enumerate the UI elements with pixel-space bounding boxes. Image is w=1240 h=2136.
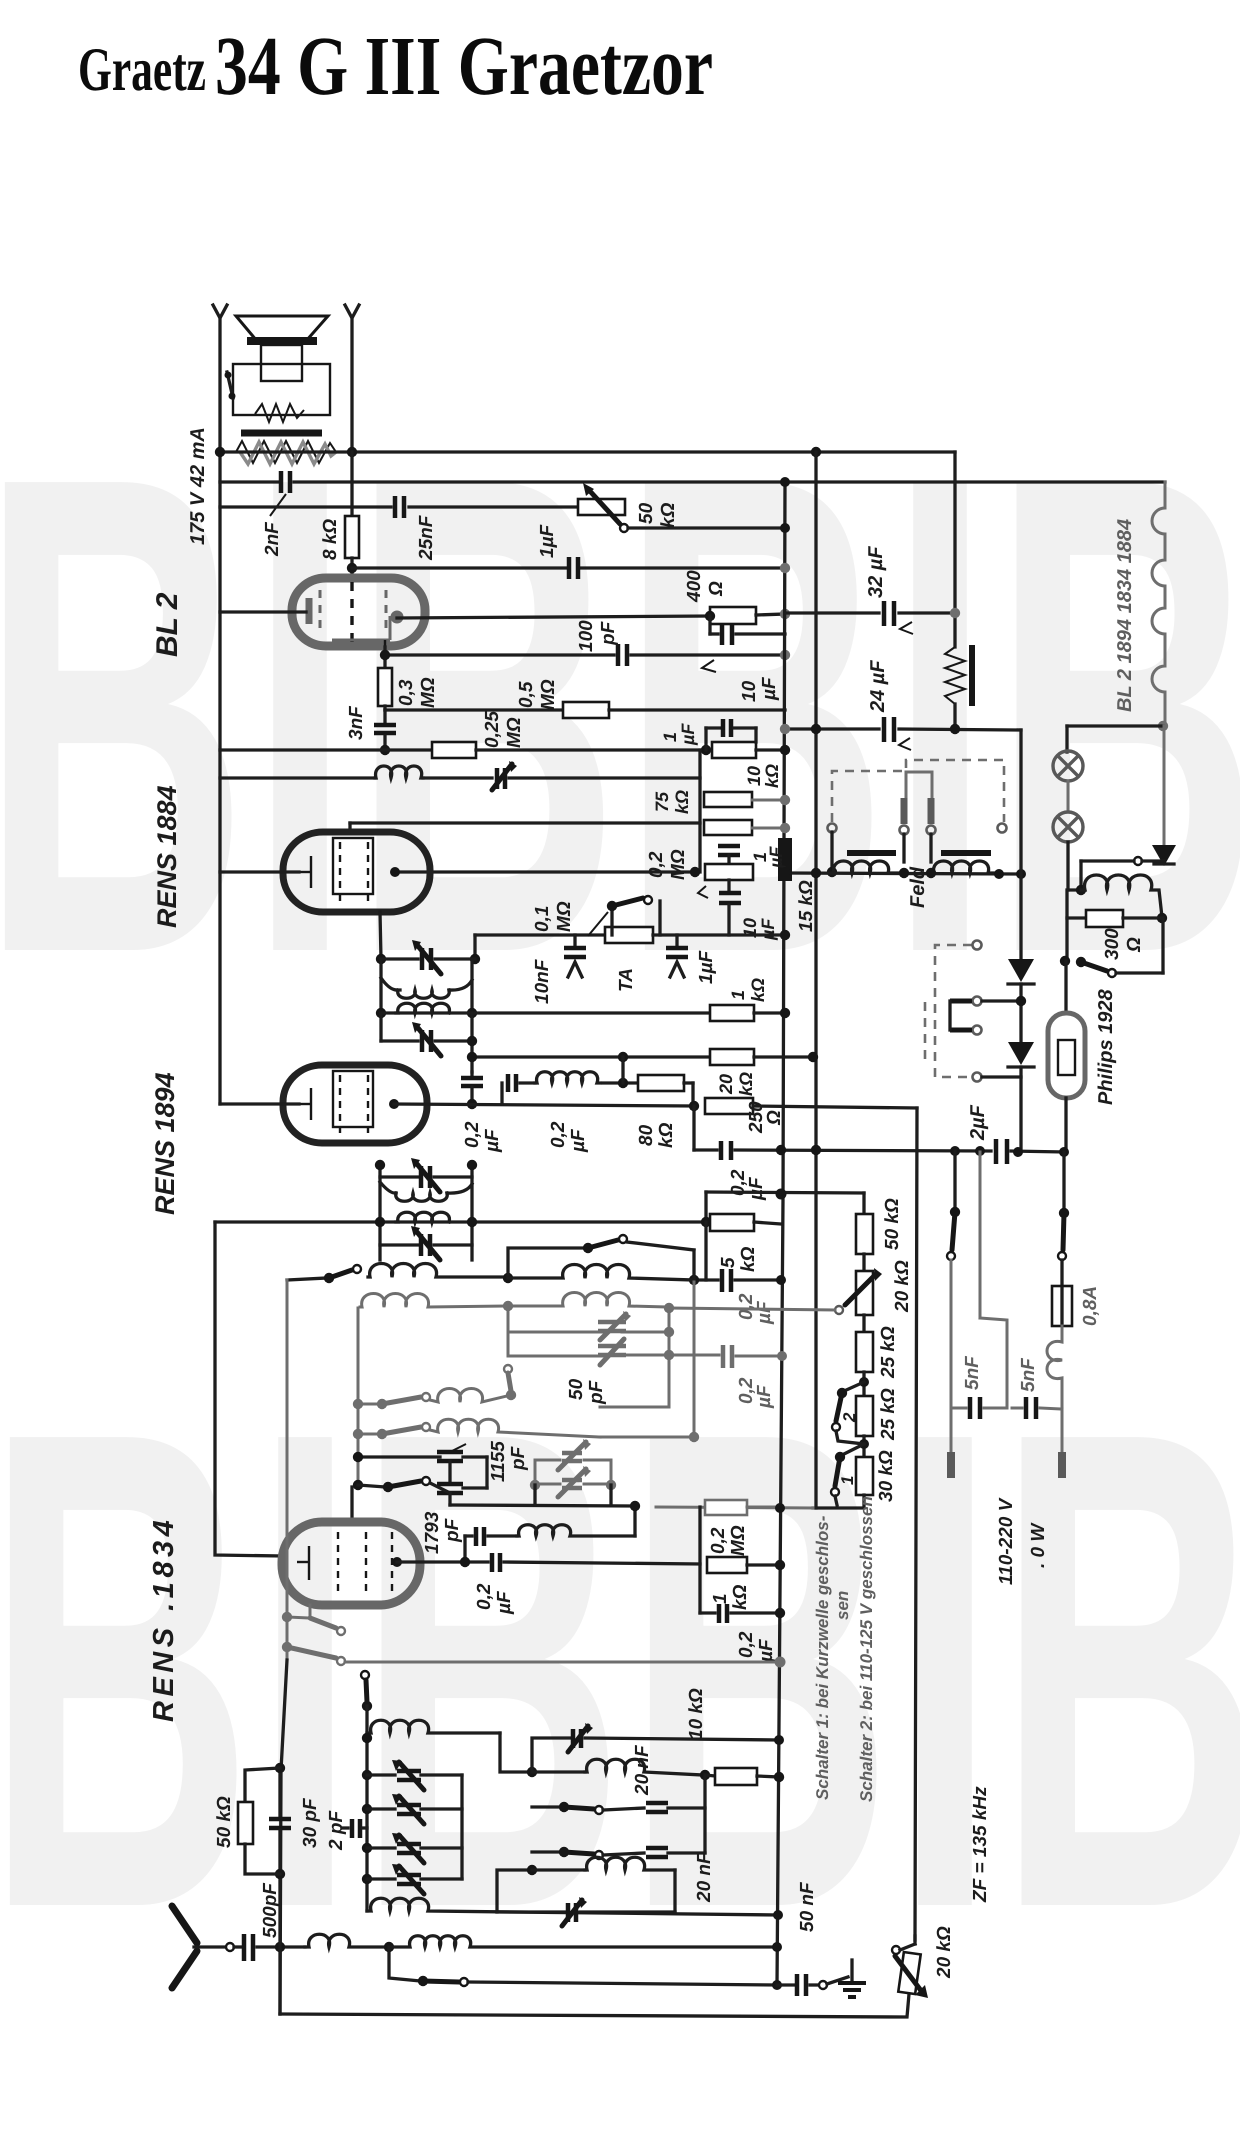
capacitor 24µF electrolytic: [882, 717, 887, 742]
gray vertical x358: [357, 1308, 360, 1485]
potentiometer 50kΩ: [578, 499, 625, 515]
capacitor 1µF to pickup: [675, 935, 678, 946]
resistor 30kΩ with switch 1: [856, 1457, 873, 1495]
svg-text:kΩ: kΩ: [730, 1584, 751, 1610]
svg-text:µF: µF: [494, 1590, 515, 1615]
wire: grid feed line y507: [220, 505, 391, 508]
mains transformer dashed frame left: [832, 760, 1004, 822]
svg-text:Philips 1928: Philips 1928: [1095, 989, 1117, 1105]
svg-text:100: 100: [576, 620, 597, 652]
tube RENS 1884: [283, 832, 430, 912]
gray switch + coil 6 (y1432): [358, 1433, 382, 1436]
svg-text:MΩ: MΩ: [728, 1525, 749, 1556]
svg-text:1: 1: [710, 1593, 731, 1604]
capacitor 50nF + earth: [773, 1910, 783, 1920]
svg-text:5nF: 5nF: [1018, 1357, 1039, 1392]
svg-text:µF: µF: [482, 1128, 503, 1153]
resistor 50kΩ (antenna): [245, 1768, 280, 1802]
wire: 1894 anode line: [394, 1104, 695, 1106]
wire: left supply vertical V1: [213, 305, 227, 318]
svg-text:10 kΩ: 10 kΩ: [686, 1688, 707, 1740]
switch (tone/feedback): [1060, 956, 1070, 966]
wire: screen feed column x=700: [698, 750, 701, 872]
Feld winding left: [832, 861, 904, 873]
gray switch at x508: [504, 1365, 512, 1373]
svg-text:kΩ: kΩ: [762, 764, 782, 788]
resistor 400Ω: [710, 607, 756, 624]
svg-text:500pF: 500pF: [260, 1882, 281, 1938]
svg-text:pF: pF: [508, 1445, 529, 1471]
field winding resistor inside magnet: [255, 404, 304, 422]
svg-text:10nF: 10nF: [532, 958, 553, 1004]
svg-text:1: 1: [838, 1476, 857, 1485]
trimmer on line y778: [495, 768, 500, 789]
wire: line y778 with coil: [220, 776, 375, 779]
resistor 20kΩ: [710, 1049, 754, 1065]
Feld winding right: [931, 861, 999, 873]
filter choke coil: [1081, 875, 1162, 917]
loudspeaker horn: [236, 316, 328, 341]
svg-text:1: 1: [660, 732, 680, 742]
wire: AVC line y1057: [472, 1055, 710, 1058]
svg-text:pF: pF: [442, 1517, 463, 1543]
plug bridge: [905, 772, 908, 798]
IF transformer T2 top trimmer: [378, 1165, 381, 1260]
svg-text:TA: TA: [616, 968, 637, 992]
capacitor 32µF electrolytic: [882, 601, 887, 626]
wiper line to x669: [669, 1308, 835, 1310]
ballast resistor zigzag: [945, 647, 965, 704]
svg-text:1793: 1793: [422, 1511, 443, 1554]
resistor 15kΩ on bus A: [778, 838, 792, 881]
resistor 0,2MΩ on line y872: [690, 867, 700, 877]
gray vertical x694: [693, 1282, 696, 1438]
wire: 24µF line y729: [785, 727, 879, 730]
resistor 80kΩ: [638, 1075, 684, 1091]
gray coil 4 on y1306: [508, 1293, 666, 1308]
socket contacts: [828, 824, 837, 833]
output transformer primary winding: [236, 441, 336, 463]
switch on x1064: [1062, 1152, 1065, 1213]
resistor 5kΩ: [710, 1214, 754, 1231]
wire: BL2 cathode line y612: [220, 610, 306, 613]
T2 bottom trimmer: [380, 1243, 418, 1246]
svg-text:RENS .1834: RENS .1834: [148, 1516, 180, 1722]
svg-text:80: 80: [636, 1124, 657, 1146]
svg-text:25 kΩ: 25 kΩ: [878, 1326, 899, 1379]
capacitor 1793pF + osc coil: [463, 1536, 466, 1562]
svg-text:kΩ: kΩ: [748, 978, 768, 1002]
potentiometer 20kΩ (volume): [856, 1271, 873, 1315]
link up to switch line y1248: [508, 1248, 585, 1278]
wire: grid bias line y935: [475, 933, 605, 936]
svg-text:Graetz: Graetz: [78, 36, 206, 104]
svg-text:µF: µF: [766, 846, 786, 869]
antenna coil 1: [305, 1934, 386, 1947]
capacitor 25nF: [393, 496, 398, 518]
oscillator trimmer pair: [534, 1460, 537, 1485]
svg-text:kΩ: kΩ: [658, 502, 679, 528]
wire: antenna shunt vertical x280: [278, 1768, 281, 1817]
svg-text:2: 2: [840, 1412, 859, 1423]
tube base switches: [309, 1605, 312, 1618]
resistor 75kΩ b: [704, 820, 752, 835]
svg-text:µF: µF: [759, 676, 780, 701]
diode 1: [1008, 959, 1034, 982]
tube RENS 1894: [283, 1065, 427, 1143]
antenna coil 2: [389, 1936, 777, 1947]
svg-text:1µF: 1µF: [537, 523, 558, 558]
resistor 1kΩ: [710, 1005, 754, 1021]
svg-text:BIBBIB: BIBBIB: [0, 1290, 1240, 2050]
tuning gang trimmers column: [460, 1775, 463, 1879]
svg-text:µF: µF: [754, 1300, 775, 1325]
capacitor 2nF: [279, 471, 284, 493]
wire: grid line y568 with capacitor 1µF: [352, 566, 566, 569]
switch above 0,1MΩ: [610, 906, 613, 935]
svg-text:kΩ: kΩ: [656, 1122, 677, 1148]
wire: BL2 anode line y616: [397, 616, 710, 618]
wire: main DC line y874: [395, 870, 695, 873]
wire: line y1507 to 0,2MΩ: [656, 1507, 813, 1508]
svg-text:MΩ: MΩ: [554, 901, 575, 932]
svg-text:10: 10: [739, 680, 760, 702]
grid cap feed: [350, 1487, 353, 1522]
resistor 0,3MΩ vertical: [383, 655, 386, 668]
wire: screen line y482: [220, 480, 278, 483]
capacitor 2µF: [994, 1139, 999, 1164]
wire: 32µF line y613: [785, 611, 879, 614]
svg-text:Ω: Ω: [764, 1110, 785, 1126]
switch on x955: [953, 1151, 956, 1212]
svg-text:0,2: 0,2: [474, 1583, 495, 1610]
svg-text:20 nF: 20 nF: [632, 1744, 653, 1796]
mixer coupling line y1738: [532, 1738, 570, 1772]
gray switch + coil 5 (y1402): [358, 1403, 382, 1406]
svg-text:0,5: 0,5: [516, 681, 537, 708]
svg-text:8 kΩ: 8 kΩ: [320, 519, 341, 560]
capacitor 10nF to pickup: [573, 935, 576, 946]
coil on y1870: [532, 1868, 585, 1871]
wire: lamp branch top y726: [1067, 724, 1163, 727]
svg-text:15 kΩ: 15 kΩ: [796, 880, 817, 932]
loudspeaker voice coil: [261, 345, 302, 381]
svg-text:1155: 1155: [488, 1441, 509, 1482]
wire: left drop to 1834: [215, 1222, 282, 1556]
wire: RF line y1277 with switch: [287, 1278, 326, 1280]
wire: rectifier vertical x=1021: [1019, 730, 1022, 959]
antenna switch: [389, 1947, 420, 1981]
wire: BL2 grid return y655 with capacitor 100pF: [383, 647, 386, 655]
wire: 1834 grid line y1562 with capacitor 0,2µF: [397, 1560, 488, 1563]
svg-text:sen: sen: [833, 1591, 852, 1620]
svg-text:175 V 42 mA: 175 V 42 mA: [187, 427, 209, 545]
resistor 300Ω: [1065, 890, 1068, 961]
coil 2 on y1277: [508, 1265, 694, 1281]
resistor 50kΩ vertical: [856, 1214, 873, 1254]
wire: 1884 cathode line y872: [220, 870, 299, 873]
loudspeaker magnet pot: [233, 364, 330, 415]
svg-text:MΩ: MΩ: [504, 717, 525, 748]
svg-text:5: 5: [718, 1257, 739, 1268]
wire: diode line y1222: [215, 1220, 710, 1223]
anode RC bypass: capacitor 0,2µF series coil: [500, 1083, 503, 1104]
resistor 25kΩ a: [862, 1315, 865, 1332]
wire: cathode vertical left: [286, 1280, 289, 1660]
svg-text:Ω: Ω: [1124, 937, 1145, 953]
svg-text:MΩ: MΩ: [538, 679, 559, 710]
node: anode bus line y452: [220, 450, 955, 453]
svg-text:300: 300: [1102, 928, 1123, 960]
tube Philips 1928: [1064, 961, 1067, 1013]
svg-text:µF: µF: [746, 1176, 767, 1201]
grid resistor block: 0,2MΩ / 1kΩ / 0,2µF: [698, 1507, 701, 1613]
wire: rectifier vertical x=955 top: [953, 452, 956, 647]
capacitor 5nF a: [951, 1407, 966, 1410]
svg-text:50 kΩ: 50 kΩ: [214, 1796, 235, 1848]
svg-text:pF: pF: [586, 1379, 607, 1405]
resistor 0,1MΩ: [605, 927, 653, 943]
osc section coil bottom y1912: [367, 1898, 778, 1915]
svg-text:RENS 1884: RENS 1884: [152, 785, 182, 928]
speaker terminal pin: [227, 372, 233, 398]
svg-text:20 kΩ: 20 kΩ: [934, 1926, 955, 1979]
svg-text:32 µF: 32 µF: [865, 546, 887, 598]
mains pin a: [947, 1452, 955, 1478]
wire: line y710 with resistor 0,5MΩ: [383, 706, 386, 710]
svg-text:µF: µF: [678, 723, 698, 746]
T1 primary coil: [381, 978, 400, 990]
wire: bus B x=816: [814, 452, 817, 1508]
wire: pot bottom return y1508: [813, 1495, 864, 1508]
svg-text:ZF = 135 kHz: ZF = 135 kHz: [970, 1786, 991, 1903]
pole bar: [241, 430, 322, 437]
tube RENS 1834: [282, 1522, 420, 1605]
capacitor 3nF: [383, 710, 386, 722]
capacitor 5nF b: [1024, 1397, 1029, 1419]
svg-text:1: 1: [728, 990, 748, 1000]
svg-text:75: 75: [652, 791, 672, 812]
svg-text:0,2: 0,2: [708, 1527, 729, 1554]
svg-text:50: 50: [636, 502, 657, 524]
oscillator keying switch: [361, 1671, 369, 1679]
svg-text:20 kΩ: 20 kΩ: [892, 1260, 913, 1313]
wire: bus A x=785: [777, 482, 785, 1985]
svg-text:5nF: 5nF: [962, 1355, 983, 1390]
svg-text:µF: µF: [568, 1128, 589, 1153]
svg-text:2nF: 2nF: [262, 521, 283, 557]
wire: line y1505: [450, 1505, 635, 1536]
svg-text:34 G III Graetzor: 34 G III Graetzor: [215, 20, 713, 113]
svg-text:25nF: 25nF: [416, 514, 437, 561]
gray coil 3 on y1306: [360, 1294, 505, 1308]
T1 secondary trimmer: [379, 1013, 382, 1041]
svg-text:0,2: 0,2: [462, 1121, 483, 1148]
fuse 0,8A: [1052, 1286, 1072, 1326]
T2 primary coil: [380, 1182, 396, 1193]
svg-text:kΩ: kΩ: [738, 1246, 759, 1272]
svg-text:10: 10: [744, 766, 764, 786]
lamp 2: [1053, 812, 1083, 842]
T2 secondary coil on line y1222: [375, 1217, 385, 1227]
svg-text:2 pF: 2 pF: [326, 1810, 347, 1851]
svg-text:µF: µF: [758, 918, 778, 941]
wire: 1894 cathode line y1104: [220, 1102, 299, 1105]
switch + capacitor 20nF (a): [532, 1805, 561, 1808]
wire: 1884 bottom pin: [380, 912, 381, 959]
wire: line y750: [220, 748, 432, 751]
lamp 1: [1053, 751, 1083, 781]
wire: heater vertical x=1165: [1152, 482, 1165, 726]
switch 3 black: [353, 1480, 363, 1490]
coil on y1277: [368, 1264, 505, 1278]
switch + capacitor 20nF (b): [532, 1850, 561, 1853]
gray capacitor 0,2µF y1356: [721, 1345, 726, 1368]
resistor 250Ω: [705, 1098, 753, 1114]
svg-text:RENS 1894: RENS 1894: [150, 1072, 180, 1215]
tube BL2: [292, 578, 425, 646]
rectifier arrow (disc rectifier): [1163, 726, 1166, 845]
svg-text:BL 2: BL 2: [151, 592, 184, 657]
diode 2: [1008, 1042, 1034, 1065]
capacitor 0,2µF (AVC) vertical: [470, 1072, 473, 1077]
capacitor 10µF electrolytic: [708, 616, 711, 634]
osc section coil top y1733: [367, 1720, 500, 1733]
svg-text:20: 20: [716, 1074, 736, 1095]
svg-text:Ω: Ω: [706, 581, 727, 597]
svg-text:50: 50: [566, 1378, 587, 1400]
selector links: [950, 999, 972, 1004]
resistor 25kΩ b with switch 2: [856, 1396, 873, 1436]
gray trimmer line y1332: [508, 1331, 602, 1334]
svg-text:20 nF: 20 nF: [694, 1851, 715, 1903]
wire: speaker vertical V2: [345, 305, 359, 318]
svg-text:0,25: 0,25: [482, 711, 503, 748]
svg-text:3nF: 3nF: [346, 705, 367, 740]
wire: AVC return line y1662: [345, 1661, 780, 1664]
svg-text:30 kΩ: 30 kΩ: [876, 1450, 897, 1502]
svg-text:µF: µF: [754, 1384, 775, 1409]
svg-text:. 0 W: . 0 W: [1028, 1522, 1049, 1568]
resistor 75kΩ a: [704, 792, 752, 807]
coil on y1772 + resistor 10kΩ: [532, 1770, 585, 1773]
wire: oscillator bus x=917: [915, 1108, 917, 1940]
svg-text:Schalter 2: bei 110-125 V gesc: Schalter 2: bei 110-125 V geschlossen: [857, 1496, 876, 1802]
svg-text:0,3: 0,3: [396, 679, 417, 706]
svg-text:50 nF: 50 nF: [797, 1881, 818, 1932]
mains pin b: [1058, 1452, 1066, 1478]
padder 1155pF: [358, 1455, 440, 1458]
svg-text:30 pF: 30 pF: [300, 1797, 321, 1848]
resistor 10kΩ with capacitor 1µF parallel: [701, 745, 711, 755]
svg-text:kΩ: kΩ: [736, 1072, 756, 1096]
svg-text:Schalter 1: bei Kurzwelle gesc: Schalter 1: bei Kurzwelle geschlos-: [813, 1515, 832, 1800]
gray vertical x669: [668, 1308, 671, 1407]
resistor 0,25MΩ: [432, 742, 476, 758]
capacitor 1µF (screen): [718, 844, 740, 849]
svg-text:50 kΩ: 50 kΩ: [882, 1198, 903, 1250]
wire: 1894 screen drop: [692, 1106, 695, 1150]
output transformer secondary winding: [240, 442, 336, 464]
svg-text:0,2: 0,2: [548, 1121, 569, 1148]
capacitor 10µF electrolytic (cathode): [727, 880, 730, 891]
capacitor 2pF stub: [342, 1826, 348, 1829]
wire: AVC feed line y1192: [706, 1192, 864, 1193]
svg-text:24 µF: 24 µF: [867, 660, 889, 713]
wire: HT return line y1150: [694, 1148, 717, 1151]
svg-text:400: 400: [684, 570, 705, 603]
svg-text:MΩ: MΩ: [418, 677, 439, 708]
Feld coil cores: [847, 850, 896, 856]
trimmer on y1912: [497, 1910, 565, 1913]
T1 secondary coil + line y1013: [376, 1008, 386, 1018]
capacitor 500pF (antenna): [234, 1945, 241, 1948]
svg-text:2µF: 2µF: [967, 1104, 989, 1141]
svg-text:pF: pF: [598, 620, 619, 646]
gray trimmer line y1356: [508, 1355, 602, 1358]
svg-text:110-220 V: 110-220 V: [996, 1497, 1017, 1585]
svg-text:1µF: 1µF: [696, 949, 717, 984]
wire: 1884 anode line y823: [350, 821, 700, 824]
mains choke: [1047, 1326, 1062, 1452]
svg-text:0,1: 0,1: [532, 906, 553, 932]
resistor 8kΩ vertical: [350, 452, 353, 516]
potentiometer 20kΩ (feedback): [913, 1936, 916, 1944]
IF transformer T1: [376, 954, 386, 964]
svg-text:µF: µF: [756, 1638, 777, 1663]
svg-text:0,2: 0,2: [646, 851, 667, 878]
capacitor 0,2µF (AVC filter): [704, 1222, 707, 1280]
svg-text:kΩ: kΩ: [672, 790, 692, 814]
ground symbol: [827, 1977, 848, 1984]
svg-text:0,2: 0,2: [736, 1631, 757, 1658]
gray vertical x508: [507, 1306, 510, 1356]
branch x980 to 5nF b: [979, 1152, 982, 1318]
svg-text:MΩ: MΩ: [668, 849, 689, 880]
svg-text:25 kΩ: 25 kΩ: [878, 1388, 899, 1441]
voltage selector dashed frame: [935, 945, 972, 1077]
antenna symbol: [172, 1906, 197, 1943]
svg-text:0,8A: 0,8A: [1080, 1286, 1101, 1326]
wire: bottom return y2015: [280, 1994, 909, 2017]
svg-text:BL 2 1894 1834 1884: BL 2 1894 1834 1884: [1114, 519, 1136, 712]
